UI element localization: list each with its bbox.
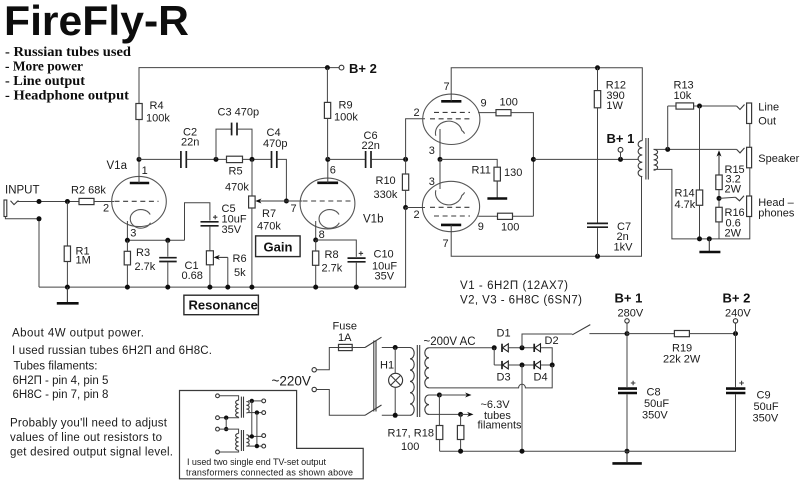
svg-text:7: 7 <box>444 81 450 93</box>
svg-text:V1a: V1a <box>107 160 128 172</box>
wire R12 top lead <box>597 68 599 91</box>
diode D1 <box>502 344 508 352</box>
wire C9 top lead <box>735 334 737 387</box>
svg-text:~220V: ~220V <box>272 374 311 389</box>
junction dot sec A bottom <box>255 410 259 414</box>
svg-text:1: 1 <box>142 165 148 177</box>
wire C5 to R6 <box>209 227 211 251</box>
tube types note <box>460 280 582 307</box>
svg-text:0.68: 0.68 <box>182 270 203 282</box>
svg-text:470k: 470k <box>257 221 281 233</box>
resistor R15 <box>716 175 722 190</box>
junction dot R1 top <box>65 199 70 204</box>
svg-text:R8: R8 <box>325 249 339 261</box>
wire anode V1a pin1 up <box>138 159 140 183</box>
anode plate V3 <box>441 224 461 227</box>
junction dot R12 top <box>595 65 600 70</box>
svg-text:B+ 2: B+ 2 <box>723 291 751 306</box>
svg-text:About 4W output power.: About 4W output power. <box>12 328 144 340</box>
screen V2 (dashed) <box>434 111 470 113</box>
svg-text:C3 470p: C3 470p <box>218 107 260 119</box>
junction dot bridge minus <box>520 363 525 368</box>
svg-text:R4: R4 <box>150 100 164 112</box>
junction dot V3 grid tap <box>403 205 408 210</box>
TV transformer B primary coil <box>236 434 239 451</box>
TV transformer B secondary coil <box>246 435 249 446</box>
svg-text:R5: R5 <box>229 166 243 178</box>
wire R11 to ground <box>496 181 498 198</box>
note box TV transformers <box>180 391 364 479</box>
junction dot C10 bottom <box>354 285 359 290</box>
svg-text:- More power: - More power <box>5 59 83 74</box>
svg-text:50uF: 50uF <box>644 398 669 410</box>
wire wiper node to V1b grid pin7 <box>286 200 302 202</box>
wire C9 bottom lead to ground bus <box>440 394 736 451</box>
wire parallel link 2 <box>256 413 258 447</box>
wire cathode V1b pin8 down <box>315 221 317 240</box>
capacitor C7 <box>587 223 608 227</box>
junction dot headphone tap <box>717 196 722 201</box>
wire R9 bottom lead <box>327 118 329 159</box>
wire jack common middle <box>749 168 751 196</box>
cathode V2 arc <box>435 121 464 136</box>
wire R19 to B2 node <box>689 333 735 335</box>
svg-text:Tubes filaments:: Tubes filaments: <box>14 361 98 373</box>
svg-text:10k: 10k <box>674 90 692 102</box>
svg-text:V2, V3 - 6Н8С (6SN7): V2, V3 - 6Н8С (6SN7) <box>460 295 582 307</box>
wire pin8 to C10 <box>316 240 357 257</box>
svg-text:R10: R10 <box>376 175 396 187</box>
wire R3 leads <box>126 240 128 251</box>
svg-text:1W: 1W <box>606 100 623 112</box>
svg-text:130: 130 <box>504 167 522 179</box>
svg-text:100k: 100k <box>334 112 358 124</box>
svg-text:Probably you'll need to adjust: Probably you'll need to adjust <box>10 418 168 430</box>
TV transformer A primary top wire <box>219 396 238 400</box>
junction dot R18 bottom <box>458 449 463 454</box>
junction dot H1 bottom <box>393 413 398 418</box>
junction dot R6 wiper bottom <box>225 285 230 290</box>
wire R9 top lead <box>326 68 328 103</box>
wire R13 to line out <box>694 105 737 107</box>
junction dot R3 top <box>125 238 130 243</box>
svg-text:3: 3 <box>130 228 136 240</box>
capacitor C1 <box>159 240 177 287</box>
svg-text:Gain: Gain <box>264 240 293 255</box>
junction dot screen bus B+1 tap <box>531 157 536 162</box>
tube V1a envelope <box>112 176 167 226</box>
wire R2 to V1a grid pin2 <box>94 201 114 203</box>
tube V2 envelope <box>423 94 480 144</box>
label R17, R18 100 <box>388 428 434 454</box>
diode D4 <box>534 361 540 369</box>
wire C3 loop right <box>237 129 252 159</box>
label ~6.3V tubes filaments <box>478 399 523 432</box>
svg-text:C9: C9 <box>757 390 771 402</box>
svg-text:1A: 1A <box>338 332 352 344</box>
wire R6 to ground bus <box>209 265 211 287</box>
output transformer T2 core <box>646 138 648 180</box>
tube V1b envelope <box>300 178 355 229</box>
wire R10 bottom lead <box>405 190 407 207</box>
terminal B+2 <box>339 65 344 70</box>
wire cathode V1a pin3 down <box>126 221 128 240</box>
capacitor C9 <box>726 389 745 393</box>
svg-text:R3: R3 <box>136 247 150 259</box>
capacitor C8 polarity + <box>631 381 636 386</box>
junction dot cathodes <box>438 157 443 162</box>
wire switch to H1 top <box>382 347 410 349</box>
terminal sec A top <box>262 399 266 403</box>
wire jack sleeve <box>5 217 39 288</box>
junction dot B+1 node <box>618 157 623 162</box>
jack tick line out <box>737 105 745 110</box>
svg-text:B+ 1: B+ 1 <box>607 131 635 146</box>
svg-text:D3: D3 <box>497 372 511 384</box>
svg-text:Fuse: Fuse <box>333 321 357 333</box>
svg-text:V1 - 6Н2П (12AX7): V1 - 6Н2П (12AX7) <box>460 280 568 292</box>
wire R14 bottom <box>699 205 701 239</box>
capacitor C5 polarity + <box>213 215 217 219</box>
wire secondary top lead <box>654 148 737 150</box>
TV secondary B top wire <box>248 435 262 437</box>
svg-text:V1b: V1b <box>363 214 383 226</box>
svg-text:280V: 280V <box>618 308 644 320</box>
terminal mains upper <box>312 368 316 372</box>
output transformer T2 primary <box>638 141 642 177</box>
wire R10 top lead <box>405 159 407 174</box>
junction dot sec B bottom <box>255 444 259 448</box>
filament feed arrow lower <box>461 412 474 417</box>
TV secondary B bottom wire <box>248 445 262 447</box>
wire lower 100 to screen bus <box>513 215 534 217</box>
TV transformer A core <box>241 397 243 418</box>
svg-text:22k 2W: 22k 2W <box>663 354 701 366</box>
ground bus bottom <box>39 286 406 288</box>
ground main <box>612 451 641 463</box>
wire R14 line down <box>699 106 701 190</box>
wire C2 to node A <box>187 158 227 160</box>
junction dot R14 top <box>697 104 702 109</box>
junction dot H1 top <box>393 345 398 350</box>
svg-text:C8: C8 <box>647 387 661 399</box>
capacitor C6 <box>366 151 371 168</box>
TV secondary A top wire <box>248 400 262 402</box>
svg-text:- Line output: - Line output <box>5 73 86 88</box>
resistor R14 <box>696 190 702 205</box>
wire cathode V2 pin3 down <box>439 129 441 159</box>
resistor R19 <box>674 331 689 337</box>
junction dot R8 bottom <box>313 285 318 290</box>
wire bridge plus up to B+ switch <box>522 334 572 348</box>
wire cathodes to R11 <box>440 159 497 167</box>
TV transformer A primary terminal top <box>216 394 220 398</box>
resistor R10 <box>402 174 408 190</box>
junction dot R18 top <box>458 412 463 417</box>
wire anode V3 pin7 down <box>451 177 641 256</box>
resistor R5 <box>227 156 243 162</box>
R15 arrow up <box>717 150 722 175</box>
svg-text:filaments: filaments <box>478 420 523 432</box>
svg-text:R9: R9 <box>339 100 353 112</box>
svg-text:- Headphone output: - Headphone output <box>5 88 130 103</box>
junction dot bridge plus <box>520 345 525 350</box>
wire B+1 terminal lead <box>626 323 628 334</box>
ground R11 <box>487 197 507 200</box>
TV transformer B primary bottom wire <box>219 450 238 452</box>
wire 100 to screen bus <box>511 113 533 217</box>
R7 wiper arrow <box>255 199 286 204</box>
svg-text:7: 7 <box>291 203 297 215</box>
svg-text:100: 100 <box>401 441 419 453</box>
wire screen V2 to 100 ohm <box>478 112 496 114</box>
screen V3 (dashed) <box>434 215 470 217</box>
wire bridge left column <box>493 348 495 365</box>
wire R17 leads <box>438 395 440 451</box>
wire C7 bottom lead <box>597 228 599 256</box>
svg-text:Resonance: Resonance <box>189 298 258 313</box>
svg-text:2: 2 <box>103 203 109 215</box>
input jack J1 <box>4 200 18 217</box>
wire R10 to ground bus corner <box>404 208 406 288</box>
TV transformer A secondary coil <box>246 402 249 413</box>
wire D2 to AC2 corner <box>541 348 553 365</box>
junction dot C8 ground <box>625 449 630 454</box>
junction dot B2 rail <box>733 331 738 336</box>
svg-text:6Н8С - pin 7, pin 8: 6Н8С - pin 7, pin 8 <box>13 389 109 401</box>
svg-text:7: 7 <box>443 238 449 250</box>
junction dot R14 bottom <box>697 236 702 241</box>
jack body line out <box>747 103 752 124</box>
wire HV secondary top to bridge <box>429 347 494 349</box>
wire R13 left riser <box>667 106 669 149</box>
junction dot ground symbol <box>65 285 70 290</box>
junction dot sec B top <box>250 434 254 438</box>
wire B+1 terminal stub <box>620 152 622 159</box>
wire D4 to AC2 <box>541 364 553 366</box>
switch B+ blade <box>572 325 590 335</box>
svg-text:22n: 22n <box>181 137 199 149</box>
junction dot series link bottom <box>224 427 228 431</box>
svg-text:- Russian tubes used: - Russian tubes used <box>5 44 132 59</box>
wire HV secondary bottom with hop <box>429 365 552 388</box>
svg-text:I used russian tubes 6Н2П and: I used russian tubes 6Н2П and 6Н8С. <box>12 345 212 357</box>
svg-text:get desired output signal leve: get desired output signal level. <box>10 447 173 459</box>
svg-text:35V: 35V <box>222 224 242 236</box>
switch blade lower <box>365 405 382 415</box>
R6 wiper arrow <box>214 255 228 287</box>
wire B+ switch to B1 node <box>589 333 627 335</box>
svg-text:9: 9 <box>478 221 484 233</box>
TV transformer B primary terminal bottom <box>216 450 220 454</box>
potentiometer R6 <box>206 251 213 265</box>
svg-text:350V: 350V <box>753 413 779 425</box>
anode plate V1a <box>130 182 149 185</box>
svg-text:470p: 470p <box>263 138 287 150</box>
wire R8 bottom <box>315 265 317 287</box>
capacitor C5 <box>201 222 219 226</box>
svg-text:330k: 330k <box>374 189 398 201</box>
svg-text:D1: D1 <box>497 328 511 340</box>
svg-text:Line: Line <box>758 102 779 114</box>
grid V1a (dashed) <box>115 200 159 202</box>
wire jack common upper <box>749 124 751 148</box>
resistor R4 <box>136 104 142 120</box>
TV transformer B primary terminal top <box>216 427 220 431</box>
svg-text:6: 6 <box>330 165 336 177</box>
fuse F1 <box>339 344 353 350</box>
svg-text:R6: R6 <box>233 253 247 265</box>
tube V3 envelope <box>422 181 479 231</box>
wire D1 to plus node <box>508 347 534 349</box>
wire C8 bottom lead <box>626 394 628 451</box>
capacitor C10 <box>348 258 366 262</box>
output transformer T2 secondary <box>654 149 658 170</box>
wire headphone tap <box>719 197 736 198</box>
anode plate V1b <box>317 182 338 185</box>
svg-text:2: 2 <box>414 107 420 119</box>
jack tick speaker <box>737 148 745 153</box>
wire R15 bottom <box>718 190 720 208</box>
wire cathode V3 pin3 up <box>439 159 441 189</box>
svg-text:2.7k: 2.7k <box>135 261 156 273</box>
wire grid node to V3 pin2 <box>406 207 425 209</box>
switch blade upper <box>365 337 382 347</box>
junction dot pin8 <box>313 238 318 243</box>
jack body headphones <box>747 196 752 217</box>
filament feed arrow upper <box>439 393 471 398</box>
wire secondary bottom lead <box>654 169 750 239</box>
resistor R2 <box>79 198 94 204</box>
wire B1 to R19 <box>627 333 674 335</box>
grid V1b (dashed) <box>303 200 353 202</box>
resistor R17 <box>436 426 443 440</box>
note text <box>186 457 353 477</box>
svg-text:2W: 2W <box>725 228 742 240</box>
svg-text:50uF: 50uF <box>754 401 779 413</box>
terminal B+1 <box>618 147 623 152</box>
svg-text:values of line out resistors t: values of line out resistors to <box>10 432 162 444</box>
wire pin6 to C6 <box>328 158 365 160</box>
junction dot node B <box>250 157 255 162</box>
svg-text:B+ 2: B+ 2 <box>349 61 377 76</box>
junction dot R9 top <box>325 65 330 70</box>
svg-text:1kV: 1kV <box>614 242 634 254</box>
wire R13 left lead <box>668 105 676 107</box>
TV secondary A bottom wire <box>248 412 262 414</box>
wire C3 loop left <box>216 129 231 159</box>
anode plate V2 <box>441 100 461 103</box>
svg-text:470k: 470k <box>225 182 249 194</box>
svg-text:350V: 350V <box>642 410 668 422</box>
svg-text:4.7k: 4.7k <box>675 199 696 211</box>
svg-text:~200V AC: ~200V AC <box>424 336 476 348</box>
cathode V1a arc <box>130 210 150 229</box>
resistor R9 <box>324 102 330 118</box>
TV transformer A primary coil <box>236 400 239 417</box>
terminal sec A bottom <box>262 411 266 415</box>
wire R8 leads <box>315 240 317 251</box>
wire R1 lead <box>66 202 68 247</box>
wire R12 to C7 <box>597 108 599 223</box>
grid V2 (dashed) <box>430 118 470 120</box>
resistor R18 <box>457 426 464 440</box>
junction dot R17 top <box>437 393 442 398</box>
wire C8 top lead <box>626 334 628 387</box>
wire D3 to minus node <box>508 364 534 366</box>
wire R16 bottom <box>718 222 720 239</box>
capacitor C3 <box>232 123 237 136</box>
mains transformer T1 core <box>417 345 419 417</box>
wire AC1 to D3 <box>494 364 502 366</box>
svg-text:R14: R14 <box>675 188 695 200</box>
junction dot output ground <box>707 236 712 241</box>
resistor R lower 100 <box>498 213 513 219</box>
junction dot R6 bottom <box>207 285 212 290</box>
svg-text:2: 2 <box>414 209 420 221</box>
svg-text:2.7k: 2.7k <box>322 263 343 275</box>
junction dot bridge minus at bus <box>520 449 525 454</box>
label Gain box <box>256 236 301 257</box>
TV transformer A primary terminal bottom <box>216 416 220 420</box>
junction dot pin6 node <box>325 157 330 162</box>
wire C6 to grid node <box>371 158 405 160</box>
junction dot node A <box>214 157 219 162</box>
wire R1 to ground bus <box>66 262 68 288</box>
cathode V1b arc <box>319 210 339 229</box>
svg-text:Out: Out <box>758 116 776 128</box>
resistor R upper 100 <box>496 110 511 116</box>
resistor R11 <box>494 167 500 181</box>
svg-text:R11: R11 <box>472 165 491 177</box>
wire B+2 terminal lead <box>735 323 737 334</box>
wire fuse to switch <box>352 347 365 349</box>
wire screen bus to B+1 node <box>533 158 638 160</box>
svg-text:INPUT: INPUT <box>5 185 40 197</box>
mains transformer T1 6.3V secondary <box>425 395 429 414</box>
terminal mains lower <box>312 387 316 391</box>
svg-text:100k: 100k <box>146 113 170 125</box>
resistor R1 <box>64 246 70 262</box>
wire cathode bus V1a <box>127 239 184 241</box>
svg-text:9: 9 <box>481 98 487 110</box>
junction dot V1a grid-bus left <box>137 157 142 162</box>
wire switch to H1 bottom <box>382 414 410 416</box>
svg-text:H1: H1 <box>380 360 394 372</box>
terminal sec B top <box>262 434 266 438</box>
feature list <box>5 44 132 103</box>
junction dot R3 bottom <box>125 285 130 290</box>
wire C4 to R7 wiper node <box>277 159 286 201</box>
capacitor C4 <box>272 151 277 168</box>
svg-text:I used two single end TV-set o: I used two single end TV-set output <box>187 457 326 467</box>
resistor R8 <box>313 251 319 265</box>
wire anode V1b pin6 up <box>327 159 329 182</box>
svg-text:1M: 1M <box>76 255 91 267</box>
svg-text:R7: R7 <box>262 208 276 220</box>
svg-text:100: 100 <box>501 222 519 234</box>
power rail B+2 top wire <box>139 68 339 160</box>
potentiometer R7 <box>249 196 256 208</box>
junction dot R7 bottom <box>249 285 254 290</box>
svg-text:22n: 22n <box>362 140 380 152</box>
svg-text:B+ 1: B+ 1 <box>615 291 643 306</box>
junction dot sec A top <box>250 399 254 403</box>
junction dot bridge AC1 <box>492 345 497 350</box>
wire jack tip to R2 <box>17 201 80 203</box>
svg-text:3: 3 <box>429 176 435 188</box>
terminal B+2 rail <box>733 319 737 323</box>
